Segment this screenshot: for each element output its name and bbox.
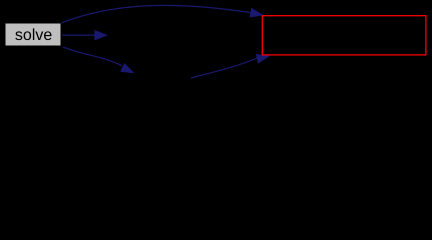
arrowhead middle edge — [95, 30, 108, 40]
edge bottom node->red node — [190, 58, 258, 78]
red node (truncated, outline only) — [262, 16, 426, 55]
arrowhead bottom-left edge — [121, 63, 135, 73]
middle node (black on black, invisible) — [108, 23, 208, 47]
node solve (grey box) — [5, 23, 61, 46]
bottom node (black on black, invisible) — [135, 74, 191, 98]
edge solve->middle node (straight) — [62, 34, 96, 36]
edge solve->bottom node — [63, 47, 122, 66]
edge solve->top node (arc) — [61, 5, 251, 23]
arrowhead top edge — [250, 8, 263, 17]
arrowhead into red node bottom — [256, 54, 270, 63]
call graph canvas — [0, 0, 432, 105]
